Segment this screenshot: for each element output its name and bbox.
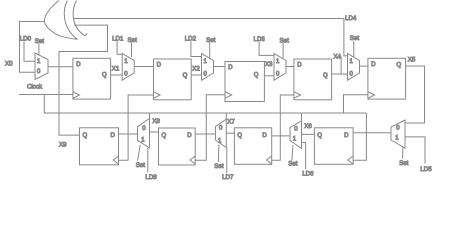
wire: mux M3 output to U4 D [286,66,294,68]
wire: LD6 to mux M6 input 1 [302,143,306,170]
svg-text:Clock: Clock [27,85,43,91]
wire: LD3 to mux M3 [259,42,274,56]
svg-text:Q: Q [317,133,322,139]
wire: Set to mux M0 select [38,44,40,55]
wire: LD0 to mux M0 [24,41,35,61]
svg-text:X0: X0 [5,61,13,68]
svg-text:X4: X4 [334,53,342,60]
svg-text:0: 0 [219,125,223,131]
wire: mux M8 output to U9 D [119,133,138,135]
D flip-flop U6 [314,128,353,165]
XOR gate G1 inner input arc [73,1,87,36]
svg-text:Q: Q [323,73,328,79]
wire: Set to mux M2 select [209,42,211,59]
wire: Set to mux M6 select [292,145,293,161]
U1 clock triangle [73,92,80,99]
svg-text:Set: Set [214,163,224,170]
wire: Set to mux M1 select [131,42,133,57]
wire: LD2 to mux M2 [191,41,202,56]
wire: U7 Q to mux M7 (node X7) [226,132,234,134]
wire: Set to mux M8 select [138,145,141,161]
wire: clock drop for U6 [353,113,366,160]
mux M8 [138,118,150,148]
U3 clock triangle [225,92,232,99]
wire: mux M6 top corner to rail [301,113,303,121]
D flip-flop U1 [73,58,111,99]
wire: Set to mux M3 select [282,43,284,58]
wire: mux M0 output to U1 D [48,66,73,68]
wire: XOR input 2 loop to X9 (Q of U9) [59,25,108,135]
D flip-flop U9 [80,128,119,165]
svg-text:Set: Set [136,162,146,169]
wire: mux M6 output to U7 D [272,135,290,137]
svg-text:Q: Q [237,133,242,139]
svg-text:Q: Q [83,133,88,139]
wire: mux M7 output to U8 D [195,133,215,135]
svg-text:LD6: LD6 [302,170,314,177]
svg-text:X2: X2 [192,65,200,72]
svg-text:X1: X1 [112,65,120,72]
wire: mux M4 output to U5 D [360,65,368,67]
svg-text:1: 1 [124,59,128,65]
svg-text:LD0: LD0 [20,36,32,43]
wire: clock riser for U3 and U8 [195,95,225,161]
svg-text:X5: X5 [408,57,416,64]
svg-text:Q: Q [254,72,259,78]
wire: U2 Q to mux M2 (node X2) [191,74,201,76]
svg-text:0: 0 [294,127,298,133]
clock input wire [19,94,73,96]
svg-text:1: 1 [293,137,297,143]
svg-text:D: D [344,133,349,139]
wire: mux M8 top corner to rail [149,113,151,118]
wire: clock riser for U5 [344,95,368,113]
wire: clock riser for U2 and U9 [119,95,154,160]
wire: clock riser for U4 and U7 [272,95,294,160]
svg-text:X6: X6 [304,123,312,130]
svg-text:D: D [111,133,116,139]
svg-text:Set: Set [206,37,216,44]
wire: U1 Q to mux M1 (node X1) [111,74,123,76]
svg-text:D: D [262,133,267,139]
svg-text:Set: Set [350,35,360,42]
wire: U5 Q to mux M5 input 0 (node X5) [405,66,425,123]
mux M1 [122,53,134,80]
wire: LD7 to mux M7 input 1 [226,148,228,174]
wire: Set to mux M7 select [217,145,220,163]
wire: LD5 to mux M5 input 1 [405,137,425,164]
mux M7 [215,119,226,147]
U9 clock triangle [113,156,118,164]
svg-text:Set: Set [288,161,298,168]
wire: LD1 to mux M1 [117,41,122,54]
svg-text:1: 1 [395,136,399,142]
svg-text:LD8: LD8 [145,174,157,181]
svg-text:D: D [76,62,81,68]
U6 clock triangle [348,156,353,164]
mux M2 [202,53,214,80]
svg-text:X9: X9 [59,141,67,148]
svg-text:D: D [228,65,233,71]
mux M6 [290,121,302,149]
XOR gate G1 outer input arc [64,1,77,40]
svg-text:D: D [371,62,376,68]
D flip-flop U4 [294,59,332,100]
svg-text:Set: Set [128,37,138,44]
U5 clock triangle [368,92,375,99]
svg-text:LD7: LD7 [222,174,234,181]
node X4 tap [340,57,342,75]
svg-text:Q: Q [397,62,402,68]
mux M0 [35,53,48,80]
wire: U4 Q to mux M4 (node X4) [332,73,348,75]
wire: LD8 to mux M8 input 1 [147,148,149,173]
svg-text:Set: Set [280,37,290,44]
wire: mux M7 top corner to rail [225,113,227,119]
svg-text:Set: Set [35,38,45,45]
D flip-flop U8 [159,128,196,165]
wire: U3 Q to mux M3 (node X3) [264,75,274,77]
svg-text:1: 1 [204,59,208,65]
svg-text:Q: Q [183,73,188,79]
svg-text:1: 1 [141,138,145,144]
XOR gate G1 body [44,1,77,40]
svg-text:X3: X3 [265,61,273,68]
D flip-flop U3 [225,62,264,102]
svg-text:Q: Q [162,133,167,139]
svg-text:LD1: LD1 [112,35,124,42]
U7 clock triangle [267,156,272,164]
wire: U8 Q to mux M8 (node X8) [150,131,159,133]
svg-text:1: 1 [276,59,280,65]
U8 clock triangle [190,156,195,164]
wire: XOR input 1 to LD4 vertical [73,19,348,56]
svg-text:X8: X8 [152,118,160,125]
wire: U6 Q to mux M6 (node X6) [302,133,315,135]
svg-text:0: 0 [142,126,146,132]
mux M4 [348,53,360,80]
U2 clock triangle [154,92,161,99]
svg-text:D: D [157,63,162,69]
svg-text:LD4: LD4 [345,15,357,22]
wire: Set to mux M4 select [353,41,355,58]
wire: mux M1 output to U2 D [134,66,153,68]
D flip-flop U2 [154,59,192,100]
svg-text:LD5: LD5 [420,166,432,173]
U4 clock triangle [294,92,301,99]
svg-text:1: 1 [218,138,222,144]
svg-text:1: 1 [37,59,41,65]
svg-text:Q: Q [102,73,107,79]
svg-text:0: 0 [396,126,400,132]
svg-text:D: D [187,133,192,139]
svg-text:D: D [297,63,302,69]
svg-text:X7: X7 [227,119,235,126]
wire: XOR output to mux M0 input 0 (node X0) [20,22,45,73]
wire: Set to mux M5 select [402,147,405,159]
wire: clock rail [44,95,366,114]
D flip-flop U7 [234,128,271,165]
svg-text:Set: Set [399,160,409,167]
wire: mux M2 output to U3 D [214,66,226,68]
wire: mux M5 output to U6 D [353,132,391,134]
mux M5 [391,120,405,148]
mux M3 [274,53,286,80]
svg-text:1: 1 [350,59,354,65]
svg-text:0: 0 [37,69,41,75]
D flip-flop U5 [368,58,406,99]
